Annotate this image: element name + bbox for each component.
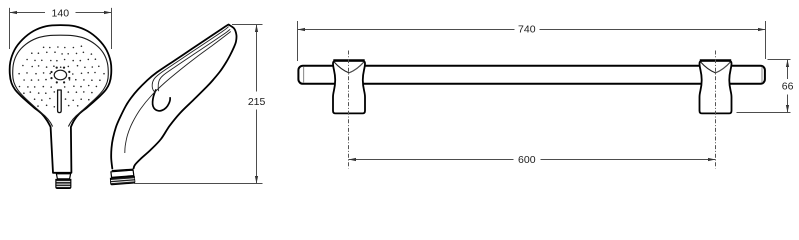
side thread block <box>110 176 134 184</box>
bottom collar (front) <box>56 174 70 179</box>
svg-text:140: 140 <box>52 7 70 19</box>
centre cap ellipse <box>54 70 66 80</box>
lever spur (side) <box>153 90 171 111</box>
right bracket <box>700 60 732 113</box>
svg-text:740: 740 <box>518 24 536 36</box>
spray nozzle dots <box>18 45 104 107</box>
svg-text:66: 66 <box>782 81 794 93</box>
ring of 8 larger dots <box>50 67 70 84</box>
left bracket <box>333 60 365 113</box>
inner face rim <box>13 35 109 126</box>
thread block (front) <box>56 179 71 188</box>
svg-text:600: 600 <box>518 154 536 166</box>
side collar <box>111 170 134 177</box>
centre dash-dot lines <box>349 51 716 169</box>
svg-text:215: 215 <box>248 96 266 108</box>
lever slot (front) <box>58 90 62 113</box>
inner thin lines of side view <box>125 27 231 153</box>
